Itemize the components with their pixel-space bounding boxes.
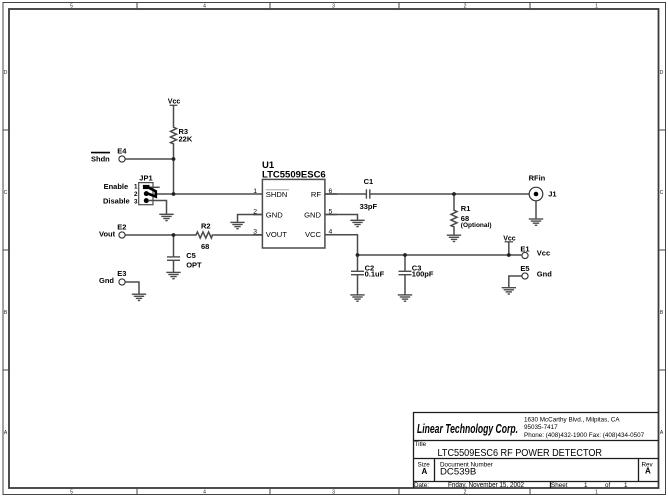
svg-text:6: 6 xyxy=(329,188,333,195)
svg-text:A: A xyxy=(4,430,8,436)
svg-text:B: B xyxy=(660,310,664,316)
svg-text:3: 3 xyxy=(134,198,138,205)
svg-text:C1: C1 xyxy=(364,177,374,186)
svg-text:2: 2 xyxy=(464,4,467,10)
svg-text:C5: C5 xyxy=(186,251,196,260)
svg-text:4: 4 xyxy=(203,4,206,10)
svg-text:VCC: VCC xyxy=(305,230,322,239)
svg-text:5: 5 xyxy=(70,4,73,10)
svg-text:68: 68 xyxy=(201,242,209,251)
svg-text:2: 2 xyxy=(464,489,467,495)
svg-text:Phone: (408)432-1900 Fax: (408: Phone: (408)432-1900 Fax: (408)434-0507 xyxy=(524,432,645,439)
svg-text:100pF: 100pF xyxy=(412,270,434,279)
svg-text:2: 2 xyxy=(253,208,257,215)
svg-text:Vcc: Vcc xyxy=(537,249,550,258)
svg-text:A: A xyxy=(645,467,651,476)
svg-text:A: A xyxy=(660,430,664,436)
svg-text:1: 1 xyxy=(595,4,598,10)
svg-text:C: C xyxy=(4,190,8,196)
svg-text:1: 1 xyxy=(624,482,628,489)
svg-text:E5: E5 xyxy=(520,264,529,273)
svg-text:Date:: Date: xyxy=(414,482,429,489)
svg-text:Gnd: Gnd xyxy=(537,270,552,279)
svg-text:C: C xyxy=(660,190,664,196)
svg-text:3: 3 xyxy=(332,4,335,10)
svg-text:4: 4 xyxy=(203,489,206,495)
svg-text:1630 McCarthy Blvd., Milpitas,: 1630 McCarthy Blvd., Milpitas, CA xyxy=(524,416,620,423)
svg-text:3: 3 xyxy=(253,228,257,235)
svg-text:R2: R2 xyxy=(201,221,211,230)
svg-text:J1: J1 xyxy=(548,189,556,198)
svg-text:Title: Title xyxy=(415,441,427,448)
svg-text:Sheet: Sheet xyxy=(551,482,568,489)
svg-text:1: 1 xyxy=(595,489,598,495)
svg-text:LTC5509ESC6: LTC5509ESC6 xyxy=(262,170,326,181)
svg-text:Vcc: Vcc xyxy=(503,235,516,242)
svg-text:3: 3 xyxy=(332,489,335,495)
svg-text:DC539B: DC539B xyxy=(440,467,476,478)
svg-text:Enable: Enable xyxy=(104,182,129,191)
svg-text:Shdn: Shdn xyxy=(91,155,110,164)
svg-text:Gnd: Gnd xyxy=(99,276,114,285)
svg-text:E3: E3 xyxy=(117,269,126,278)
svg-text:D: D xyxy=(4,70,8,76)
svg-text:JP1: JP1 xyxy=(139,173,152,182)
svg-text:(Optional): (Optional) xyxy=(461,222,492,229)
svg-text:E2: E2 xyxy=(117,223,126,232)
svg-text:VOUT: VOUT xyxy=(266,230,287,239)
svg-text:Vout: Vout xyxy=(99,230,116,239)
svg-text:22K: 22K xyxy=(179,134,193,143)
svg-text:Vcc: Vcc xyxy=(168,99,181,106)
svg-text:5: 5 xyxy=(329,208,333,215)
svg-text:GND: GND xyxy=(266,210,283,219)
svg-text:LTC5509ESC6 RF POWER DETECTOR: LTC5509ESC6 RF POWER DETECTOR xyxy=(438,447,603,459)
svg-text:Linear Technology Corp.: Linear Technology Corp. xyxy=(417,422,518,436)
svg-text:R1: R1 xyxy=(461,204,471,213)
svg-text:Friday, November 15, 2002: Friday, November 15, 2002 xyxy=(448,482,524,489)
svg-text:4: 4 xyxy=(329,228,333,235)
svg-text:SHDN: SHDN xyxy=(266,190,288,199)
svg-text:1: 1 xyxy=(584,482,588,489)
svg-text:GND: GND xyxy=(304,210,321,219)
svg-text:E1: E1 xyxy=(520,244,529,253)
svg-text:D: D xyxy=(660,70,664,76)
svg-text:OPT: OPT xyxy=(186,260,202,269)
svg-text:1: 1 xyxy=(253,188,257,195)
svg-text:A: A xyxy=(422,467,428,476)
svg-text:1: 1 xyxy=(134,184,138,191)
svg-text:RF: RF xyxy=(311,190,321,199)
svg-text:95035-7417: 95035-7417 xyxy=(524,424,558,431)
svg-text:5: 5 xyxy=(70,489,73,495)
svg-text:33pF: 33pF xyxy=(360,202,378,211)
svg-text:2: 2 xyxy=(134,191,138,198)
svg-text:RFin: RFin xyxy=(529,173,546,182)
svg-text:of: of xyxy=(605,482,611,489)
svg-text:Disable: Disable xyxy=(103,196,130,205)
svg-text:B: B xyxy=(4,310,8,316)
svg-text:E4: E4 xyxy=(117,146,127,155)
svg-text:0.1uF: 0.1uF xyxy=(365,270,385,279)
